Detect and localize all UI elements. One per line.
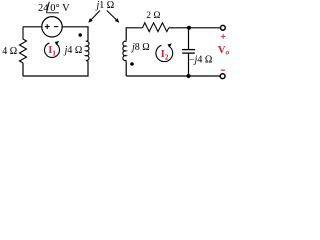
wire: bottom rail right mesh (126, 75, 219, 77)
capacitor C1 wire top (188, 28, 190, 50)
resistor R1 4ohm zigzag (20, 27, 27, 63)
label 24/0 V (38, 2, 70, 14)
polarity dot left coil (78, 33, 82, 37)
capacitor C1 bottom plate (182, 52, 195, 54)
svg-text:4 Ω: 4 Ω (2, 46, 17, 57)
wire: right coil top corner to 2ohm resistor (126, 28, 142, 41)
background (0, 0, 231, 83)
polarity dot right coil (130, 62, 134, 66)
wire: 2ohm to top terminal (169, 27, 220, 29)
wire: left mesh top-left segment (23, 26, 42, 28)
junction dot bottom of capacitor (187, 74, 191, 78)
voltage source plus sign (45, 24, 50, 29)
label plus output red (221, 34, 226, 39)
capacitor C1 wire bottom (188, 53, 190, 76)
mesh current I1 loop arrow (45, 41, 60, 58)
svg-text:j8 Ω: j8 Ω (130, 42, 150, 53)
mutual coupling arrow right (107, 11, 120, 23)
output terminal top (221, 25, 226, 30)
svg-text:−j4 Ω: −j4 Ω (189, 55, 212, 66)
svg-text:j4 Ω: j4 Ω (63, 45, 83, 56)
label minus output red (221, 69, 225, 71)
junction dot top of capacitor (187, 26, 191, 30)
mutual coupling arrow left (88, 11, 100, 23)
wire: left rail below resistor (22, 63, 24, 76)
inductor L2 j8 coil (123, 41, 126, 61)
voltage source Vs circle (42, 17, 62, 37)
svg-text:2 Ω: 2 Ω (146, 11, 160, 21)
resistor R2 2ohm zigzag (143, 23, 169, 32)
wire: source to left coil top corner (62, 27, 88, 41)
wire: left coil bottom to bottom rail (23, 61, 88, 76)
mesh current I2 loop arrow (156, 43, 173, 61)
voltage source minus sign (54, 26, 58, 28)
output terminal bottom (220, 74, 225, 79)
capacitor C1 top plate (182, 49, 195, 51)
wire: right coil bottom to bottom rail (125, 61, 127, 76)
inductor L1 j4 coil (86, 41, 89, 61)
svg-text:j1 Ω: j1 Ω (95, 0, 115, 11)
